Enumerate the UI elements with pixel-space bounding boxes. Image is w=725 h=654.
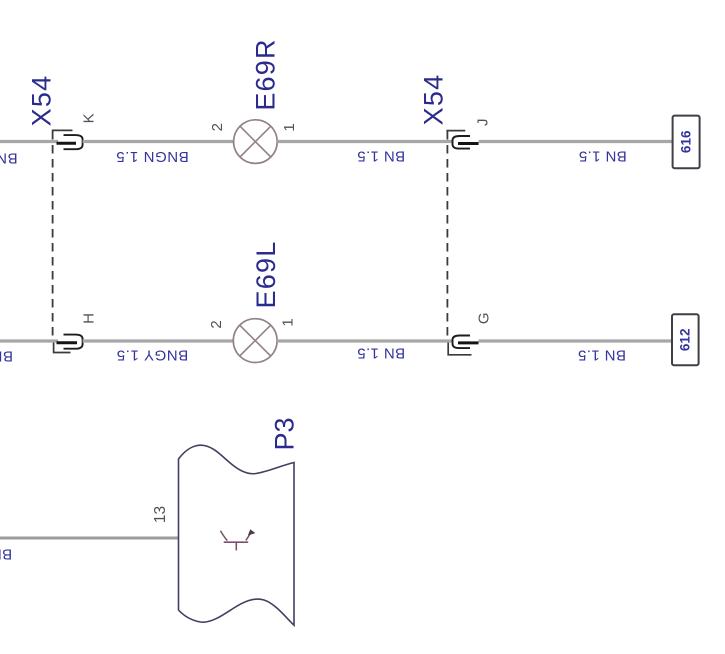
wire row3 segment — [0, 537, 179, 540]
svg-text:E69R: E69R — [251, 38, 281, 110]
svg-text:J: J — [475, 119, 492, 127]
connector X54 pin J socket bracket — [453, 136, 471, 149]
svg-text:BNGN 1.5: BNGN 1.5 — [0, 150, 18, 167]
wire row1 left segment — [0, 140, 58, 143]
svg-text:X54: X54 — [27, 75, 57, 127]
svg-text:K: K — [81, 113, 98, 123]
svg-text:G: G — [475, 312, 492, 324]
terminal box 612 — [672, 314, 699, 365]
svg-text:BN 1.5: BN 1.5 — [578, 148, 626, 165]
connector X54 pin G socket bracket — [453, 336, 471, 349]
svg-text:BN 1.5: BN 1.5 — [357, 344, 405, 361]
lamp E69L circle — [233, 319, 277, 363]
P3 internal indicator symbol left wing — [220, 531, 227, 541]
connector X54 pin K housing top bar — [52, 129, 73, 131]
svg-text:1: 1 — [281, 123, 298, 131]
svg-text:13: 13 — [152, 506, 169, 523]
lamp E69R cross — [240, 126, 271, 157]
wire row1 mid-right segment — [277, 140, 453, 143]
P3 internal indicator symbol stem — [235, 543, 237, 550]
lamp E69R circle — [234, 120, 278, 164]
wire row1 right segment — [479, 140, 673, 143]
svg-text:BNGY 1.5: BNGY 1.5 — [0, 347, 13, 364]
wire row2 right segment — [479, 339, 673, 342]
connector X54 pin K socket bracket — [64, 135, 83, 149]
connector X54 pin K male pin — [57, 142, 77, 145]
P3 internal indicator symbol arrowhead — [248, 529, 255, 535]
connector X54 housing bottom hook (right) — [448, 342, 471, 355]
svg-text:BN 1.5: BN 1.5 — [357, 148, 405, 165]
connector X54 housing dashed line (right) — [446, 131, 448, 341]
terminal box 616 — [673, 116, 700, 169]
svg-text:X54: X54 — [419, 74, 449, 126]
connector X54 housing dashed line (left) — [52, 131, 54, 341]
svg-text:616: 616 — [679, 130, 694, 153]
component P3 outline (torn box) — [179, 445, 295, 625]
svg-text:2: 2 — [209, 123, 226, 131]
svg-text:612: 612 — [678, 329, 693, 352]
svg-text:BN 1.5: BN 1.5 — [0, 546, 12, 563]
svg-text:BNGN 1.5: BNGN 1.5 — [116, 148, 189, 165]
connector X54 pin H male pin — [57, 341, 78, 344]
connector X54 pin H socket bracket — [64, 335, 83, 349]
wire row2 left segment — [0, 339, 58, 342]
svg-text:BN 1.5: BN 1.5 — [578, 347, 626, 364]
svg-text:P3: P3 — [270, 417, 300, 450]
svg-text:2: 2 — [208, 320, 225, 328]
wire row2 mid-left segment — [83, 339, 234, 342]
wire row2 mid-right segment — [277, 339, 454, 342]
svg-text:E69L: E69L — [251, 241, 281, 309]
svg-text:BNGY 1.5: BNGY 1.5 — [116, 347, 188, 364]
svg-text:H: H — [81, 313, 98, 324]
connector X54 housing bottom hook (left) — [54, 342, 71, 353]
wire row1 mid-left segment — [83, 140, 234, 143]
P3 internal indicator symbol right wing — [246, 534, 251, 541]
P3 internal indicator symbol bar — [224, 541, 249, 543]
lamp E69L cross — [240, 325, 271, 356]
svg-text:1: 1 — [279, 318, 296, 326]
connector X54 pin J male pin — [458, 142, 479, 145]
connector X54 pin J housing top bar — [446, 130, 465, 132]
connector X54 pin G male pin — [458, 341, 479, 344]
